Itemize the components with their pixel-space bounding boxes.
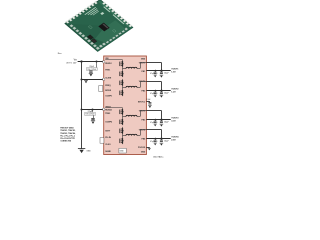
svg-text:100µF: 100µF — [164, 93, 169, 95]
capacitor COUT4a — [154, 139, 157, 142]
capacitor CIN2 22uF — [85, 109, 96, 119]
wire internal VIN rail bottom — [105, 107, 122, 109]
svg-text:47µF: 47µF — [150, 141, 154, 143]
transistor Q1 (ch1 top FET) — [120, 61, 124, 67]
svg-text:MODE: MODE — [105, 90, 112, 92]
connector jumper box J2 — [100, 138, 104, 144]
ground COUT2b — [160, 95, 164, 98]
GND pin box at block bottom — [119, 148, 126, 153]
svg-text:GND: GND — [141, 152, 146, 154]
svg-text:PLL4 CLKOUT/TR: PLL4 CLKOUT/TR — [60, 137, 75, 140]
svg-text:2.5V: 2.5V — [171, 139, 176, 141]
wire VOUT4 rail — [146, 138, 170, 140]
wire VOUT3 rail — [146, 119, 170, 121]
capacitor COUT1a — [154, 71, 157, 74]
svg-text:TRK3: TRK3 — [105, 113, 110, 115]
wire VIN34 — [82, 109, 104, 111]
PCB copper pour patch — [92, 20, 126, 45]
wire ch2 internal SW node — [123, 79, 127, 96]
small components on PCB — [87, 35, 97, 43]
wire PGOOD — [146, 147, 149, 149]
capacitor COUT2a — [154, 91, 157, 94]
wire VOUT2 rail — [146, 90, 170, 92]
wire VIN bus vertical — [81, 62, 83, 149]
svg-text:VOUT4: VOUT4 — [171, 136, 179, 139]
ground PGOOD — [148, 147, 151, 150]
svg-text:COMP2: COMP2 — [105, 122, 112, 124]
U1 left pin labels — [105, 58, 113, 153]
svg-text:1.2V: 1.2V — [171, 91, 176, 93]
pin notch VIN34 — [103, 108, 105, 110]
inductor L2 — [126, 86, 137, 87]
svg-text:47µF: 47µF — [150, 122, 154, 124]
ground COUT4b — [160, 143, 164, 146]
svg-text:PGOOD: PGOOD — [138, 147, 146, 149]
svg-text:100µF: 100µF — [164, 141, 169, 143]
svg-text:47µF: 47µF — [150, 93, 154, 95]
wire ch4 internal SW node — [123, 127, 127, 144]
svg-text:Rev: Rev — [58, 53, 63, 55]
svg-text:+: + — [157, 122, 158, 124]
node VIN junction A — [80, 60, 82, 62]
transistor Q7 (ch4 top FET) — [120, 128, 124, 134]
svg-text:3.3V: 3.3V — [171, 120, 176, 122]
wire L3 to VOUT pin — [137, 111, 146, 117]
ground COUT1b — [160, 75, 164, 78]
svg-text:100µF: 100µF — [164, 122, 169, 124]
U1 right pin labels — [138, 59, 146, 154]
wire L2 to VOUT pin — [137, 82, 146, 88]
svg-text:GND: GND — [86, 151, 91, 153]
wire internal VIN rail top — [105, 59, 122, 61]
svg-text:+: + — [157, 73, 158, 75]
svg-text:TRACK3, TRACK4,: TRACK3, TRACK4, — [60, 132, 76, 135]
node VOUT4 output label — [171, 136, 179, 142]
node VIN junction B — [96, 61, 98, 63]
pin notch RUN — [103, 78, 105, 80]
svg-text:4V TO 14V: 4V TO 14V — [66, 62, 77, 64]
ground COUT3b — [160, 124, 164, 127]
node VOUT1 junction — [161, 70, 163, 72]
svg-text:FB3: FB3 — [142, 120, 146, 122]
svg-text:FB2: FB2 — [142, 90, 146, 92]
node RUN junction — [81, 79, 83, 81]
svg-text:+: + — [157, 93, 158, 95]
capacitor COUT1b — [160, 71, 163, 74]
wire VOUT4 sense loop — [146, 130, 161, 139]
wire VIN — [78, 61, 104, 63]
svg-text:SSTT: SSTT — [105, 131, 111, 133]
ground INTVCC cap — [148, 105, 152, 108]
COUT2 value labels — [150, 93, 169, 95]
svg-text:47µF: 47µF — [150, 73, 154, 75]
wire INTVCC — [146, 101, 150, 103]
wire RUN pins — [82, 79, 104, 81]
node VIN34 junction A — [81, 109, 83, 111]
COUT4 value labels — [150, 141, 169, 143]
inductor L3 — [126, 115, 137, 116]
svg-text:GND: GND — [141, 59, 146, 61]
svg-text:2.2µF: 2.2µF — [146, 99, 150, 101]
wire ch1 internal SW node — [123, 60, 127, 77]
transistor Q3 (ch2 top FET) — [120, 80, 124, 86]
wire VOUT2 sense loop — [146, 82, 161, 91]
ground COUT1a — [154, 75, 157, 77]
node VIN34 junction B — [92, 109, 94, 111]
COUT3 value labels — [150, 122, 169, 124]
ground main bus — [78, 149, 91, 154]
svg-text:TRACK1, TRACK2,: TRACK1, TRACK2, — [60, 129, 76, 132]
ground COUT4a — [154, 143, 157, 145]
ground COUT3a — [154, 124, 157, 126]
capacitor CIN1 22uF — [87, 62, 98, 72]
ground COUT2a — [154, 95, 157, 97]
svg-text:GND: GND — [120, 151, 125, 153]
node VOUT4 junction — [161, 138, 163, 140]
wire VOUT1 sense loop — [146, 63, 161, 71]
svg-text:PLLIN: PLLIN — [105, 137, 111, 139]
ground CIN2 — [91, 121, 95, 124]
capacitor COUT3a — [154, 120, 157, 123]
svg-text:CLKO: CLKO — [105, 144, 111, 146]
svg-text:1.5V: 1.5V — [171, 71, 176, 73]
capacitor COUT3b — [160, 120, 163, 123]
IC U1 on PCB — [98, 23, 109, 32]
svg-text:100µF: 100µF — [164, 73, 169, 75]
PCB demo board photo — [64, 0, 133, 52]
wire VOUT3 sense loop — [146, 111, 161, 120]
PCB lower-right shading — [65, 0, 133, 52]
transistor Q2 (ch1 bottom FET) — [120, 71, 124, 77]
svg-text:RUN34: RUN34 — [105, 108, 112, 111]
svg-text:4644 TA01a: 4644 TA01a — [153, 156, 164, 159]
svg-text:VIN: VIN — [74, 60, 78, 62]
wire VOUT1 rail — [146, 70, 170, 72]
PCB silkscreen text — [84, 3, 124, 34]
inductor L1 — [126, 67, 137, 68]
U1 LTM4644 quad buck uModule regulator — [104, 56, 147, 155]
COUT1 value labels — [150, 73, 169, 75]
transistor Q5 (ch3 top FET) — [120, 109, 124, 115]
svg-text:FREQ: FREQ — [105, 85, 111, 87]
transistor Q4 (ch2 bottom FET) — [120, 90, 124, 96]
PCB edge pads — [65, 0, 132, 50]
connector jumper box J1 — [99, 86, 103, 92]
transistor Q8 (ch4 bottom FET) — [120, 138, 124, 144]
ground at RUN wire — [84, 79, 88, 83]
ground CIN1 — [89, 73, 93, 76]
node VOUT3 output label — [171, 118, 179, 123]
transistor Q6 (ch3 bottom FET) — [120, 119, 124, 125]
svg-text:TDK C5750X: TDK C5750X — [85, 114, 94, 116]
svg-text:CLKIN: CLKIN — [105, 78, 112, 80]
node VOUT2 output label — [171, 89, 179, 94]
note: pins not used — [60, 128, 76, 143]
node VOUT2 junction — [161, 90, 163, 92]
wire L4 to VOUT pin — [137, 130, 146, 136]
pin notch VIN — [103, 61, 105, 63]
svg-text:VIN34: VIN34 — [105, 106, 111, 109]
wire ch3 internal SW node — [123, 108, 127, 125]
svg-text:+: + — [157, 141, 158, 143]
inductor L4 — [126, 134, 137, 135]
wire L1 to VOUT pin — [137, 63, 146, 69]
node VOUT3 junction — [161, 119, 163, 121]
svg-text:CONNECTED: CONNECTED — [60, 141, 71, 143]
svg-text:INTVCC: INTVCC — [138, 101, 146, 103]
svg-text:RUN12: RUN12 — [105, 63, 111, 65]
svg-text:SGND: SGND — [105, 151, 111, 153]
svg-text:COMP1: COMP1 — [105, 95, 113, 97]
node VOUT1 output label — [171, 69, 179, 74]
capacitor COUT2b — [160, 91, 163, 94]
capacitor C INTVCC — [148, 102, 151, 105]
capacitor COUT4b — [160, 139, 163, 142]
